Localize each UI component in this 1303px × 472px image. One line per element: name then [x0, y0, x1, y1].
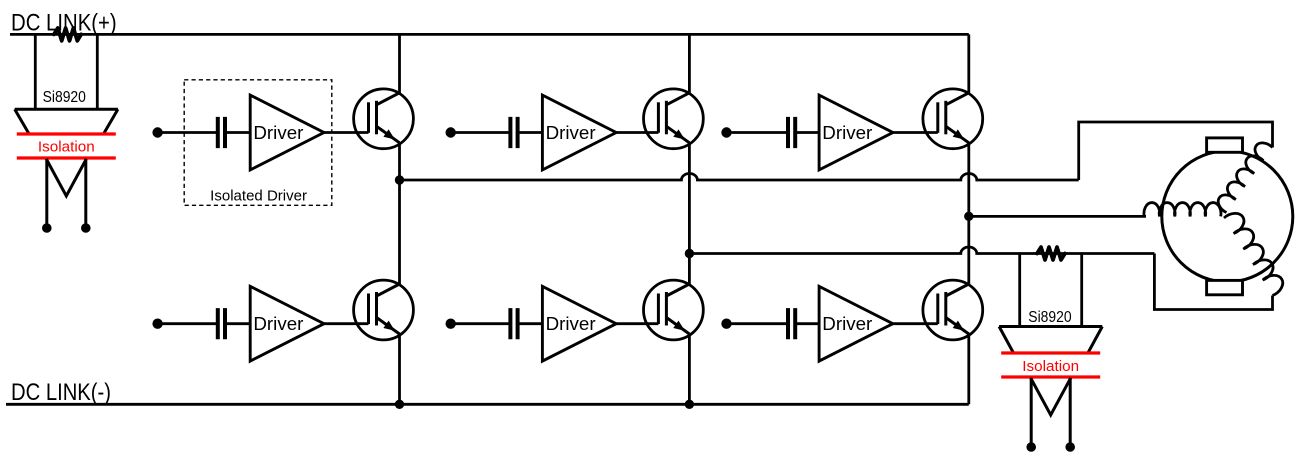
motor stator circle — [1162, 151, 1293, 282]
wire input to coupling capacitor (phase A low-side) — [158, 322, 218, 325]
wire midpoint to collector (phase B low) — [688, 254, 691, 285]
wire sense tap right (phase B shunt amp) — [1080, 254, 1083, 327]
svg-text:Driver: Driver — [822, 123, 872, 143]
isolation barrier line lower (phase B shunt amp) — [1001, 375, 1100, 378]
wire capacitor to driver (phase B low-side) — [518, 322, 543, 325]
node gate signal input dot (phase B low-side) — [446, 319, 455, 328]
svg-text:Driver: Driver — [253, 123, 303, 143]
wire top rail DC LINK(+) — [10, 33, 969, 36]
terminal dot left (phase B shunt amp) — [1027, 443, 1036, 452]
op-amp gate driver triangle (phase C low-side) — [819, 286, 893, 361]
motor terminal block bottom — [1207, 280, 1243, 294]
inductor winding phase B (lower right) — [1224, 213, 1283, 295]
svg-text:Isolated Driver: Isolated Driver — [210, 188, 307, 205]
wire phase C output line — [969, 215, 1146, 218]
wire driver output to gate (phase C low-side) — [893, 322, 938, 325]
wire phase B output line (with crossover hop) — [689, 247, 1154, 254]
svg-text:Isolation: Isolation — [1022, 358, 1079, 375]
wire bottom rail DC LINK(-) — [6, 403, 969, 406]
wire emitter to bottom rail (phase A low) — [398, 334, 401, 404]
transistor IGBT (phase A low-side) — [354, 280, 414, 340]
wire capacitor to driver (phase C low-side) — [795, 322, 819, 325]
junction dot bottom rail (phase A) — [395, 400, 403, 408]
dashed box isolated driver boundary — [184, 80, 332, 206]
capacitor coupling (phase B high-side) — [510, 117, 517, 148]
op-amp gate driver triangle (phase A high-side) — [250, 95, 324, 170]
wire output lead right (phase B shunt amp) — [1069, 378, 1072, 447]
wire phase A output line (with crossover hops) — [400, 174, 1079, 181]
wire capacitor to driver (phase A low-side) — [225, 322, 250, 325]
wire driver output to gate (phase A low-side) — [324, 322, 369, 325]
svg-text:Driver: Driver — [822, 314, 872, 334]
isolation barrier line upper (phase B shunt amp) — [1001, 351, 1100, 354]
op-amp gate driver triangle (phase B high-side) — [542, 95, 616, 170]
isolation barrier line lower (DC link shunt amp) — [17, 156, 116, 159]
node gate signal input dot (phase A low-side) — [153, 319, 162, 328]
svg-text:Si8920: Si8920 — [1028, 309, 1071, 326]
svg-text:Si8920: Si8920 — [43, 89, 86, 106]
wire sense tap left (DC link shunt amp) — [34, 34, 37, 109]
inductor winding phase C (horizontal) — [1144, 203, 1221, 217]
junction dot bottom rail (phase B) — [685, 400, 693, 408]
node gate signal input dot (phase C high-side) — [722, 128, 731, 137]
capacitor coupling (phase B low-side) — [510, 308, 517, 339]
capacitor coupling (phase A low-side) — [218, 308, 225, 339]
svg-text:Driver: Driver — [546, 314, 596, 334]
capacitor coupling (phase C low-side) — [788, 308, 795, 339]
transistor IGBT (phase C high-side) — [923, 89, 983, 149]
svg-text:DC LINK(-): DC LINK(-) — [11, 379, 111, 406]
wire emitter to midpoint (phase B) — [688, 143, 691, 254]
isolation amplifier Si8920 body top half (phase B shunt amp) — [999, 327, 1102, 354]
wire emitter to midpoint (phase A) — [398, 143, 401, 180]
transistor IGBT (phase B high-side) — [644, 89, 704, 149]
wire input to coupling capacitor (phase A high-side) — [158, 131, 218, 134]
wire emitter to bottom rail (phase B low) — [688, 334, 691, 404]
wire phase B drop to motor bottom — [1154, 254, 1272, 310]
wire capacitor to driver (phase A high-side) — [225, 131, 250, 134]
transistor IGBT (phase A high-side) — [354, 89, 414, 149]
wire emitter to midpoint (phase C) — [967, 143, 970, 217]
wire collector to top rail (phase C high) — [967, 34, 970, 92]
capacitor coupling (phase A high-side) — [218, 117, 225, 148]
transistor IGBT (phase B low-side) — [644, 280, 704, 340]
wire input to coupling capacitor (phase B high-side) — [451, 131, 511, 134]
node gate signal input dot (phase B high-side) — [446, 128, 455, 137]
wire input to coupling capacitor (phase C low-side) — [727, 322, 789, 325]
wire collector to top rail (phase B high) — [688, 34, 691, 92]
svg-text:Isolation: Isolation — [38, 138, 95, 155]
transistor IGBT (phase C low-side) — [923, 280, 983, 340]
resistor shunt in phase B output — [1037, 247, 1065, 260]
op-amp gate driver triangle (phase B low-side) — [542, 286, 616, 361]
isolation amplifier Si8920 body bottom half (DC link shunt amp) — [46, 159, 86, 196]
wire driver output to gate (phase B high-side) — [616, 131, 658, 134]
isolation barrier line upper (DC link shunt amp) — [17, 132, 116, 135]
wire sense tap left (phase B shunt amp) — [1018, 254, 1021, 327]
wire sense tap right (DC link shunt amp) — [96, 34, 99, 109]
wire midpoint to collector (phase C low) — [967, 216, 970, 284]
op-amp gate driver triangle (phase A low-side) — [250, 286, 324, 361]
isolation amplifier Si8920 body top half (DC link shunt amp) — [15, 109, 118, 134]
wire driver output to gate (phase C high-side) — [893, 131, 938, 134]
inductor winding phase A (upper right) — [1218, 143, 1272, 213]
wire capacitor to driver (phase B high-side) — [518, 131, 543, 134]
svg-text:Driver: Driver — [546, 123, 596, 143]
wire driver output to gate (phase B low-side) — [616, 322, 658, 325]
wire input to coupling capacitor (phase B low-side) — [451, 322, 511, 325]
op-amp gate driver triangle (phase C high-side) — [819, 95, 893, 170]
node gate signal input dot (phase C low-side) — [722, 319, 731, 328]
svg-text:Driver: Driver — [253, 314, 303, 334]
wire output lead right (DC link shunt amp) — [84, 159, 87, 228]
motor terminal block top — [1207, 138, 1243, 152]
wire input to coupling capacitor (phase C high-side) — [727, 131, 789, 134]
wire midpoint to collector (phase A low) — [398, 180, 401, 284]
wire collector to top rail (phase A high) — [398, 34, 401, 92]
junction dot midpoint (phase A) — [395, 176, 403, 184]
junction dot midpoint (phase B) — [685, 249, 693, 257]
resistor shunt in DC LINK(+) rail — [54, 28, 81, 41]
wire capacitor to driver (phase C high-side) — [795, 131, 819, 134]
terminal dot right (DC link shunt amp) — [82, 224, 91, 233]
node gate signal input dot (phase A high-side) — [153, 128, 162, 137]
terminal dot left (DC link shunt amp) — [43, 224, 52, 233]
wire phase A riser to motor top — [1079, 122, 1273, 180]
capacitor coupling (phase C high-side) — [788, 117, 795, 148]
wire emitter to bottom rail (phase C low) — [967, 334, 970, 404]
wire driver output to gate (phase A high-side) — [324, 131, 369, 134]
wire output lead left (DC link shunt amp) — [45, 159, 48, 228]
wire output lead left (phase B shunt amp) — [1030, 378, 1033, 447]
terminal dot right (phase B shunt amp) — [1066, 443, 1075, 452]
junction dot midpoint (phase C) — [965, 212, 973, 220]
isolation amplifier Si8920 body bottom half (phase B shunt amp) — [1031, 378, 1071, 415]
